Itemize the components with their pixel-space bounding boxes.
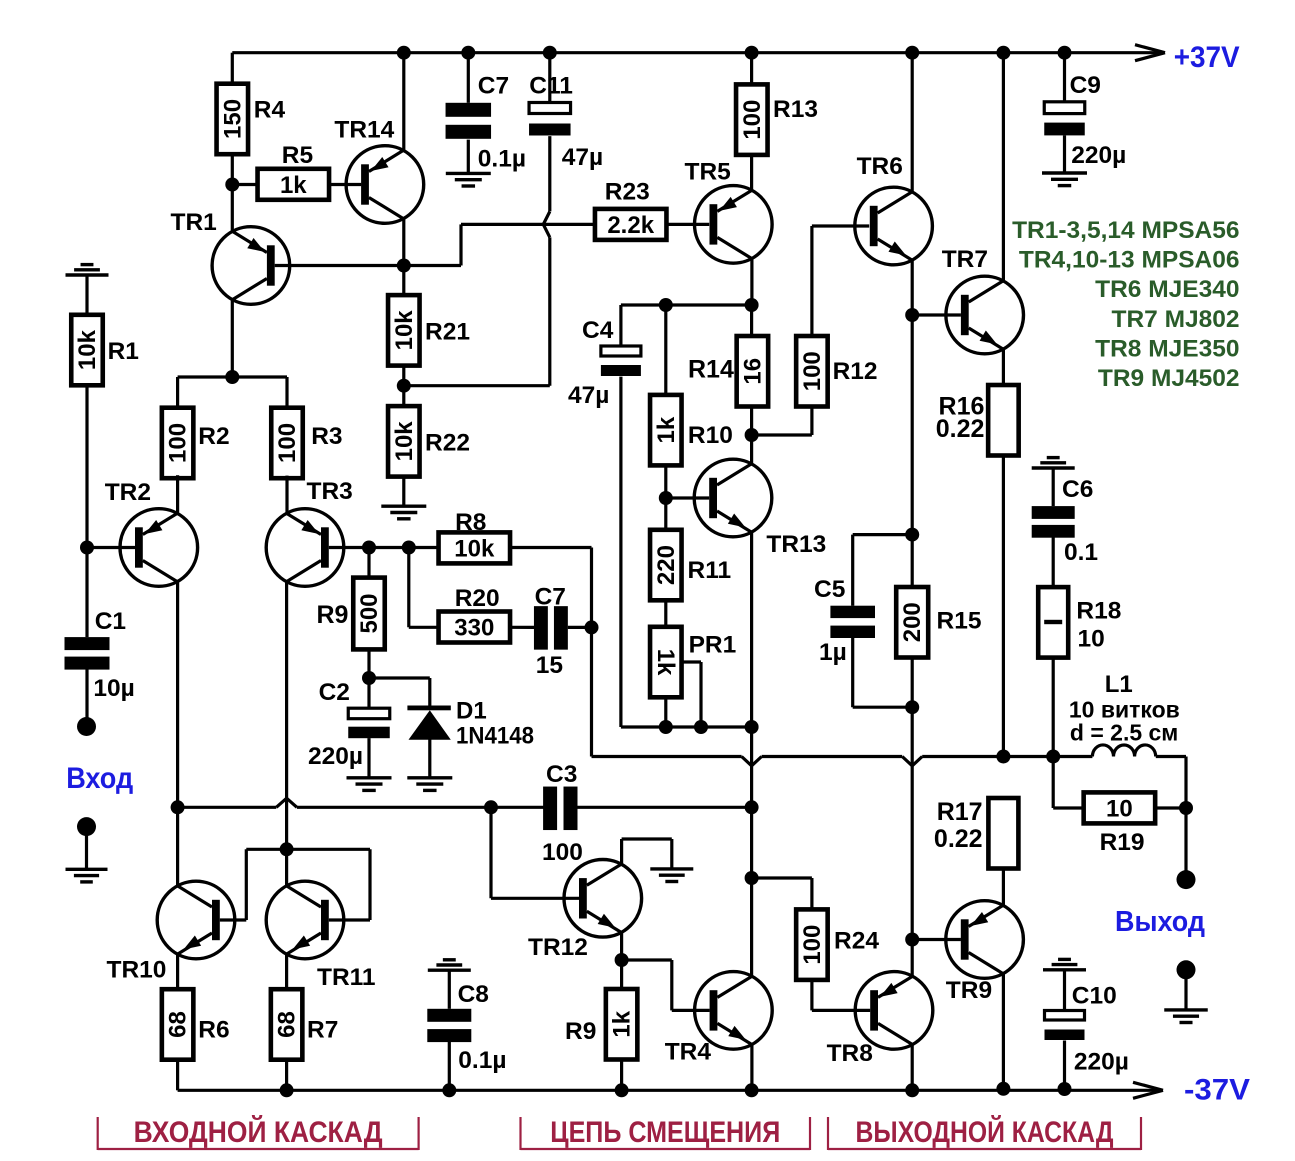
svg-text:TR7 MJ802: TR7 MJ802 xyxy=(1111,306,1239,333)
svg-text:220: 220 xyxy=(653,545,680,585)
svg-text:TR10: TR10 xyxy=(107,957,167,984)
svg-text:C9: C9 xyxy=(1070,72,1101,99)
svg-text:R20: R20 xyxy=(455,585,500,612)
svg-text:C11: C11 xyxy=(529,73,573,100)
svg-text:R19: R19 xyxy=(1100,829,1145,856)
svg-text:100: 100 xyxy=(274,423,301,463)
svg-text:100: 100 xyxy=(739,100,766,140)
svg-text:0.22: 0.22 xyxy=(936,415,985,443)
svg-text:TR9: TR9 xyxy=(946,977,992,1004)
svg-text:TR4: TR4 xyxy=(665,1039,712,1066)
svg-text:TR3: TR3 xyxy=(307,478,353,505)
svg-text:R4: R4 xyxy=(254,96,286,123)
svg-text:C4: C4 xyxy=(582,317,614,344)
svg-text:R1: R1 xyxy=(108,338,139,365)
svg-text:1k: 1k xyxy=(609,1010,636,1037)
svg-text:R24: R24 xyxy=(834,928,879,955)
svg-text:100: 100 xyxy=(799,925,826,965)
svg-text:0.1: 0.1 xyxy=(1064,539,1098,566)
svg-text:ВХОДНОЙ КАСКАД: ВХОДНОЙ КАСКАД xyxy=(134,1115,383,1149)
svg-text:C7: C7 xyxy=(478,73,509,100)
svg-text:R5: R5 xyxy=(282,142,313,169)
svg-text:220µ: 220µ xyxy=(1074,1048,1129,1075)
svg-text:TR14: TR14 xyxy=(334,117,394,144)
svg-text:C3: C3 xyxy=(546,761,577,788)
svg-text:10k: 10k xyxy=(454,535,495,562)
svg-text:TR11: TR11 xyxy=(317,964,376,991)
svg-text:R23: R23 xyxy=(605,178,650,205)
svg-text:TR4,10-13 MPSA06: TR4,10-13 MPSA06 xyxy=(1019,247,1240,274)
svg-text:150: 150 xyxy=(219,99,246,139)
svg-text:10: 10 xyxy=(1078,626,1105,653)
svg-text:ЦЕПЬ СМЕЩЕНИЯ: ЦЕПЬ СМЕЩЕНИЯ xyxy=(550,1116,780,1149)
svg-text:C8: C8 xyxy=(458,981,489,1008)
svg-text:100: 100 xyxy=(799,351,826,391)
svg-text:R8: R8 xyxy=(455,509,486,536)
svg-text:0.1µ: 0.1µ xyxy=(458,1047,506,1074)
svg-text:2.2k: 2.2k xyxy=(607,212,654,239)
svg-text:Выход: Выход xyxy=(1115,906,1205,938)
svg-text:10: 10 xyxy=(1106,795,1133,822)
svg-text:220µ: 220µ xyxy=(308,743,363,770)
svg-text:R12: R12 xyxy=(833,358,878,385)
svg-text:R17: R17 xyxy=(937,798,983,826)
svg-text:200: 200 xyxy=(899,602,926,642)
svg-text:TR7: TR7 xyxy=(942,246,988,273)
svg-text:L1: L1 xyxy=(1105,671,1133,698)
svg-text:R11: R11 xyxy=(688,557,732,584)
svg-text:TR5: TR5 xyxy=(685,158,731,185)
svg-text:0.1µ: 0.1µ xyxy=(478,145,526,172)
svg-text:100: 100 xyxy=(542,839,583,866)
svg-text:TR1-3,5,14 MPSA56: TR1-3,5,14 MPSA56 xyxy=(1012,217,1239,244)
svg-text:0.22: 0.22 xyxy=(934,825,983,853)
svg-text:TR13: TR13 xyxy=(766,531,826,558)
svg-text:R6: R6 xyxy=(198,1016,229,1043)
svg-text:+37V: +37V xyxy=(1174,41,1240,74)
svg-text:10k: 10k xyxy=(391,310,418,351)
svg-text:TR12: TR12 xyxy=(528,934,588,961)
svg-text:R9: R9 xyxy=(565,1018,596,1045)
svg-text:R9: R9 xyxy=(317,601,349,629)
svg-text:R18: R18 xyxy=(1076,598,1121,625)
svg-text:68: 68 xyxy=(165,1011,192,1038)
svg-text:330: 330 xyxy=(454,615,494,642)
svg-text:R2: R2 xyxy=(198,423,229,450)
svg-text:TR2: TR2 xyxy=(105,479,151,506)
svg-text:10k: 10k xyxy=(391,421,418,462)
svg-text:R15: R15 xyxy=(937,608,982,635)
svg-text:D1: D1 xyxy=(456,698,487,725)
svg-text:TR9 MJ4502: TR9 MJ4502 xyxy=(1098,365,1240,392)
svg-text:R21: R21 xyxy=(425,318,470,345)
svg-text:1k: 1k xyxy=(652,649,679,676)
svg-text:47µ: 47µ xyxy=(562,144,603,171)
svg-text:R10: R10 xyxy=(688,422,733,449)
svg-text:C5: C5 xyxy=(814,576,845,603)
svg-text:C1: C1 xyxy=(95,608,126,635)
svg-text:R3: R3 xyxy=(311,423,342,450)
svg-text:Вход: Вход xyxy=(66,762,133,795)
svg-text:10µ: 10µ xyxy=(93,675,134,702)
svg-text:C10: C10 xyxy=(1072,982,1117,1009)
svg-text:R14: R14 xyxy=(688,356,734,384)
svg-text:10k: 10k xyxy=(74,329,101,370)
svg-text:TR6 MJE340: TR6 MJE340 xyxy=(1095,276,1239,303)
svg-text:TR1: TR1 xyxy=(171,209,217,236)
svg-text:500: 500 xyxy=(356,593,383,633)
svg-text:15: 15 xyxy=(536,652,563,679)
svg-text:68: 68 xyxy=(274,1011,301,1038)
svg-text:PR1: PR1 xyxy=(689,632,737,659)
svg-text:100: 100 xyxy=(165,423,192,463)
svg-text:ВЫХОДНОЙ КАСКАД: ВЫХОДНОЙ КАСКАД xyxy=(856,1115,1114,1149)
svg-text:R13: R13 xyxy=(773,96,818,123)
svg-text:d = 2.5 см: d = 2.5 см xyxy=(1070,719,1178,745)
svg-text:1k: 1k xyxy=(653,416,680,443)
svg-text:R7: R7 xyxy=(307,1016,338,1043)
svg-text:1N4148: 1N4148 xyxy=(456,722,534,749)
svg-text:16: 16 xyxy=(739,358,766,385)
svg-text:1µ: 1µ xyxy=(819,639,847,666)
svg-text:1k: 1k xyxy=(280,172,307,199)
svg-text:220µ: 220µ xyxy=(1071,142,1126,169)
svg-text:TR6: TR6 xyxy=(857,153,903,180)
svg-text:47µ: 47µ xyxy=(568,382,609,409)
svg-text:-37V: -37V xyxy=(1184,1074,1250,1107)
svg-text:R22: R22 xyxy=(425,429,470,456)
svg-text:C6: C6 xyxy=(1062,476,1093,503)
svg-text:TR8 MJE350: TR8 MJE350 xyxy=(1095,335,1239,362)
svg-text:TR8: TR8 xyxy=(827,1040,873,1067)
svg-text:C2: C2 xyxy=(319,679,350,706)
svg-text:C7: C7 xyxy=(535,584,566,611)
